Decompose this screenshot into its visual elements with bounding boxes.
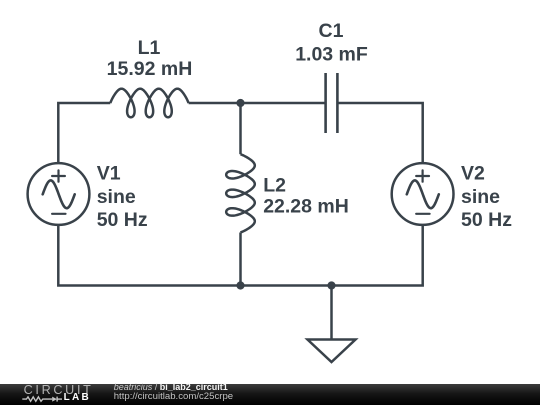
ground stem	[330, 286, 333, 340]
svg-text:sine: sine	[461, 186, 500, 208]
inductor L2	[226, 154, 255, 232]
node junction bottom rail (L2)	[236, 281, 244, 289]
svg-text:15.92 mH: 15.92 mH	[107, 58, 193, 80]
wire top rail middle segment (L1 to C1)	[189, 102, 326, 105]
CircuitLab logo resistor+diode glyph	[20, 393, 68, 405]
wire top rail right segment + top-right corner down to V2 plus	[337, 103, 422, 164]
svg-text:V1: V1	[97, 163, 121, 185]
svg-text:C1: C1	[319, 20, 344, 42]
capacitor C1	[326, 73, 338, 133]
svg-text:L2: L2	[263, 174, 286, 196]
svg-text:50 Hz: 50 Hz	[461, 209, 512, 231]
wire L2 bottom stub	[239, 232, 242, 285]
byline text	[114, 383, 228, 392]
svg-text:1.03 mF: 1.03 mF	[295, 44, 368, 66]
ground triangle	[308, 340, 356, 363]
node junction top rail (L1/C1/L2)	[236, 99, 244, 107]
logo LAB text	[64, 393, 91, 403]
footer black bar	[0, 384, 540, 405]
wire bottom rail with corners up to V1 minus and V2 minus	[58, 225, 422, 286]
wire top rail left segment + top-left corner down to V1 plus	[58, 103, 110, 164]
url text	[114, 392, 233, 402]
node junction bottom rail (ground)	[327, 281, 335, 289]
svg-text:50 Hz: 50 Hz	[97, 209, 148, 231]
svg-text:L1: L1	[138, 37, 161, 59]
CircuitLab logo wordmark CIRCUIT	[24, 384, 94, 397]
inductor L1	[110, 89, 188, 118]
voltage source V1	[28, 163, 90, 225]
svg-text:22.28 mH: 22.28 mH	[263, 195, 349, 217]
wire L2 top stub	[239, 103, 242, 154]
svg-text:sine: sine	[97, 186, 136, 208]
svg-text:V2: V2	[461, 163, 485, 185]
voltage source V2	[392, 163, 454, 225]
